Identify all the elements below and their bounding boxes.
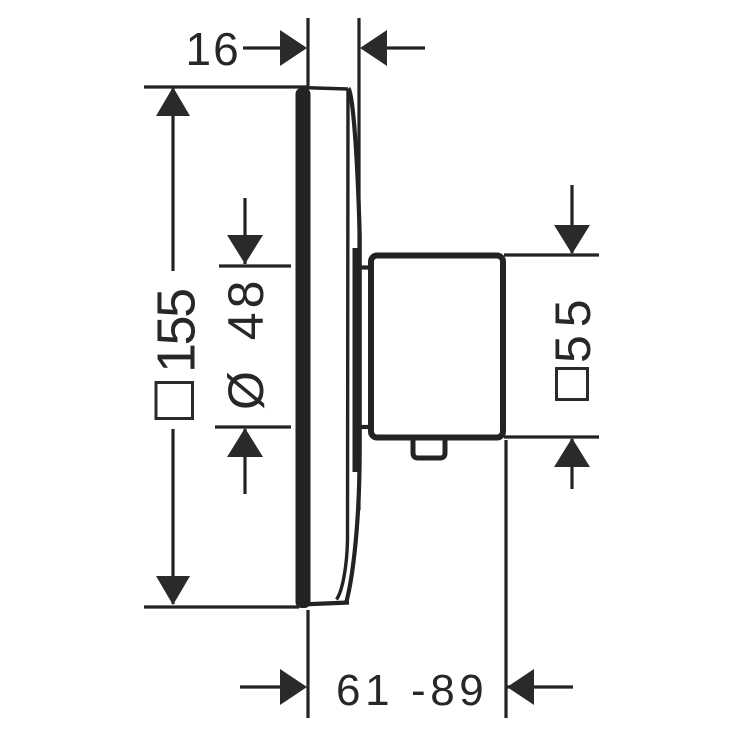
svg-text:16: 16	[186, 23, 241, 75]
svg-text:55: 55	[545, 291, 601, 363]
svg-text:Ø 48: Ø 48	[218, 277, 274, 410]
svg-text:155: 155	[147, 290, 207, 373]
svg-text:61 -89: 61 -89	[336, 666, 488, 715]
